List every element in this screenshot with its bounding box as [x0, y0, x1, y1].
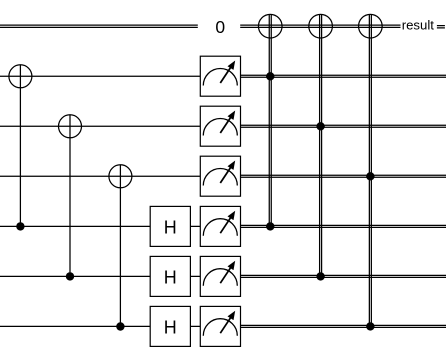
wire q4 [0, 275, 200, 277]
classical wire c0 left segment [0, 25, 198, 27]
classical XOR X3 target on c0 [359, 14, 383, 38]
CNOT CX1 target on q0 [9, 65, 32, 88]
classical wire q2 after measurement [241, 175, 446, 177]
CNOT CX3 control line q2-q5 [119, 188, 121, 327]
wire q3 [0, 225, 200, 227]
wire q0 [0, 75, 200, 77]
classical wire q4 after measurement [241, 275, 446, 277]
measurement M5 on q5 [200, 306, 240, 346]
X2 control dot on q1 [316, 122, 324, 130]
classical wire c0 right segment [240, 25, 400, 27]
CNOT CX1 control line q0-q3 [19, 88, 21, 227]
measurement M4 on q4 [200, 256, 240, 296]
classical XOR X2 vertical double line to q1,q4 [320, 14, 322, 276]
svg-text:0: 0 [215, 17, 225, 37]
classical XOR X2 target on c0 [309, 14, 333, 38]
X3 control dot on q5 [366, 322, 374, 330]
classical XOR X1 vertical double line to q0,q3 [269, 14, 271, 226]
classical wire q0 after measurement [241, 75, 446, 77]
wire q1 [0, 125, 200, 127]
X1 control dot on q0 [266, 72, 274, 80]
classical XOR X3 vertical double line to q2,q5 [369, 14, 371, 326]
svg-text:H: H [164, 217, 177, 237]
CNOT CX2 target on q1 [59, 115, 82, 138]
classical wire q5 after measurement [241, 325, 446, 327]
wire q2 [0, 175, 200, 177]
CNOT CX1 control dot on q3 [16, 222, 24, 230]
H gate on q5 [150, 306, 190, 346]
H gate on q3 [150, 206, 190, 246]
measurement M3 on q3 [200, 206, 240, 246]
measurement M0 on q0 [200, 56, 240, 96]
X2 control dot on q4 [316, 272, 324, 280]
X3 control dot on q2 [366, 172, 374, 180]
measurement M2 on q2 [200, 156, 240, 196]
svg-text:H: H [164, 267, 177, 287]
svg-text:H: H [164, 317, 177, 337]
H gate on q4 [150, 256, 190, 296]
CNOT CX2 control line q1-q4 [69, 138, 71, 277]
svg-text:result: result [402, 18, 435, 33]
classical wire q3 after measurement [241, 225, 446, 227]
classical wire q1 after measurement [241, 125, 446, 127]
classical XOR X1 target on c0 [258, 14, 282, 38]
CNOT CX3 target on q2 [109, 165, 132, 188]
measurement M1 on q1 [200, 106, 240, 146]
CNOT CX3 control dot on q5 [116, 322, 124, 330]
X1 control dot on q3 [266, 222, 274, 230]
wire q5 [0, 325, 200, 327]
CNOT CX2 control dot on q4 [66, 272, 74, 280]
